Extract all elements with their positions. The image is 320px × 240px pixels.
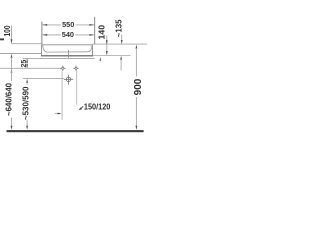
dim 900 arrowhead up at rim ext (136, 45, 138, 49)
dim ~640/640 arrowhead down at floor (11, 126, 13, 130)
dim 900 shaft (135, 48, 137, 127)
dim 540 arrowheads (42, 34, 47, 36)
svg-text:~135: ~135 (115, 19, 124, 37)
line C (supply height) (0, 67, 61, 69)
dim 140 arrowhead at bottom (106, 51, 108, 55)
dim 140 arrowhead at rim (106, 40, 108, 44)
svg-text:550: 550 (62, 20, 74, 29)
left rim extension line (11, 43, 41, 45)
dark dash top-left (0, 38, 4, 40)
dim ~530/590 arrowhead up at line D (26, 79, 28, 83)
dim ~135 upper shaft (121, 35, 123, 41)
horizontal arrow to pipe (55, 113, 60, 115)
dim 100 arrowhead (11, 39, 13, 44)
svg-text:25: 25 (19, 60, 28, 68)
dim 140 shaft (106, 35, 108, 54)
washbasin interior bowl profile (43, 45, 92, 52)
line D (drain height) (23, 78, 64, 80)
dim ~135 arrowhead up at bottom ext (120, 56, 122, 60)
dim ~640/640 shaft (11, 57, 13, 127)
dim ~640/640 arrowhead up at line A (11, 54, 13, 58)
floor line (7, 130, 144, 132)
dim 25 arrowhead down (26, 64, 28, 68)
svg-text:~640/640: ~640/640 (4, 83, 14, 116)
drain symbol (64, 75, 73, 85)
svg-text:~530/590: ~530/590 (21, 86, 31, 120)
dim ~135 arrowhead down at rim ext (121, 40, 123, 44)
washbasin rim (41, 44, 93, 46)
washbasin left wall (41, 45, 43, 56)
supply pipe right (76, 71, 78, 105)
dim 550 arrowheads (42, 24, 47, 26)
svg-text:540: 540 (62, 30, 74, 39)
right rim extension line (93, 43, 147, 45)
dim 900 arrowhead down at floor (136, 126, 138, 130)
dim ~640/640 arrowhead up at line C (11, 69, 13, 73)
dim ~530/590 arrowhead down at floor (26, 126, 28, 130)
supply connection symbol right (73, 66, 78, 71)
dim 25 arrowhead up (26, 59, 28, 63)
extension bar right shared (94, 17, 96, 45)
drain centerline in side view (68, 50, 70, 59)
small up arrow under basin bottom (100, 57, 102, 61)
line B (counter bottom) (23, 58, 95, 60)
bottom extension line right (93, 55, 131, 57)
washbasin right wall (92, 45, 94, 56)
dim 100 shaft (11, 26, 13, 41)
extension bar left shared (41, 22, 43, 45)
supply pipe left (61, 72, 63, 120)
dim 25 shaft (26, 59, 28, 68)
washbasin bottom (41, 55, 93, 57)
dim ~135 lower shaft (120, 59, 122, 70)
dim 550 line (42, 24, 94, 26)
svg-text:140: 140 (96, 25, 106, 40)
svg-text:900: 900 (133, 78, 144, 95)
line A (counter reference left) (0, 53, 41, 55)
svg-text:100: 100 (3, 25, 12, 36)
dim 540 line (42, 34, 94, 36)
svg-text:150/120: 150/120 (84, 102, 111, 112)
supply connection symbol left (60, 66, 65, 71)
dim ~530/590 shaft (26, 82, 28, 127)
leader arrow for 150/120 (80, 106, 84, 109)
